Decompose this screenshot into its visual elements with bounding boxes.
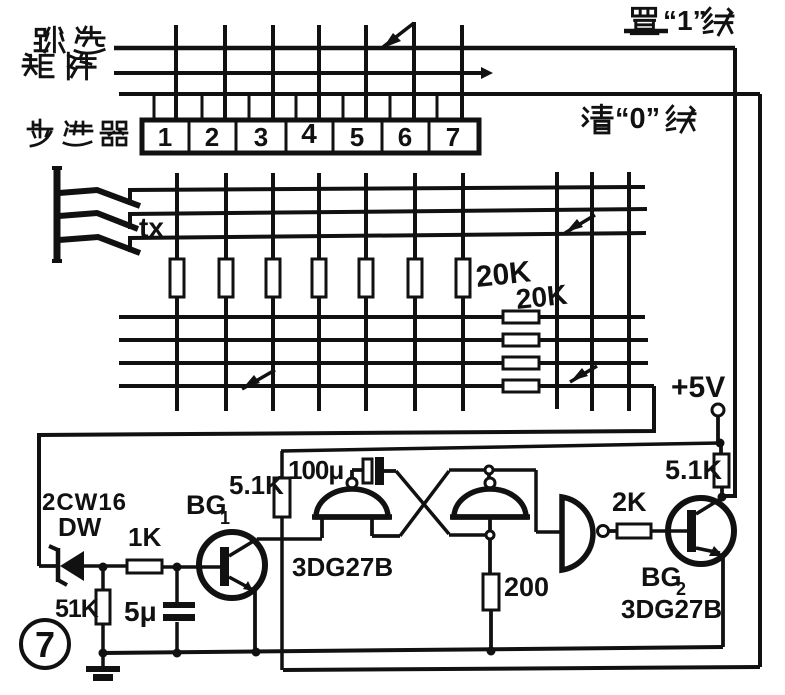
- label 步进器: [28, 120, 127, 146]
- svg-text:6: 6: [398, 122, 412, 152]
- nand gate U3: [562, 497, 617, 570]
- wire row C: [119, 361, 648, 365]
- svg-text:51K: 51K: [55, 595, 99, 623]
- wire row D to left frame: [39, 386, 654, 566]
- arrow row D right: [570, 366, 597, 382]
- wire to gate3: [493, 470, 561, 532]
- +5V terminal: [712, 404, 724, 416]
- svg-text:100μ: 100μ: [288, 455, 343, 485]
- svg-text:“0”: “0”: [615, 103, 660, 135]
- wire tx row2: [130, 209, 647, 229]
- svg-text:+5V: +5V: [671, 371, 725, 404]
- arrow row D left: [242, 370, 275, 389]
- resistor column R7: [456, 259, 470, 297]
- ground: [86, 653, 120, 681]
- wire cross X1: [396, 471, 485, 535]
- wire 200 to rail: [489, 610, 493, 651]
- mid matrix verticals with 20K resistors: [177, 173, 463, 411]
- label 置"1"线: [631, 5, 733, 36]
- svg-text:1: 1: [158, 122, 172, 152]
- underline under 置: [624, 29, 668, 34]
- svg-text:3: 3: [254, 122, 268, 152]
- capacitor 5u: [163, 567, 195, 653]
- figure number 7: [21, 620, 69, 668]
- svg-text:4: 4: [301, 118, 317, 149]
- arrowhead L2: [481, 67, 493, 79]
- junction 200 bottom: [487, 647, 496, 656]
- label BG1: [186, 490, 230, 528]
- wire +5V stub: [716, 416, 720, 442]
- right matrix verticals: [557, 172, 629, 411]
- wire BG1 collector horizontal: [257, 537, 322, 541]
- svg-text:5: 5: [350, 122, 364, 152]
- wire cross X2: [400, 470, 485, 536]
- resistor 51K: [96, 567, 110, 653]
- resistor column R1: [170, 259, 184, 297]
- resistor row B 20K: [503, 334, 539, 346]
- svg-text:1K: 1K: [128, 522, 161, 552]
- resistor column R3: [266, 259, 280, 297]
- junction node1: [99, 563, 108, 572]
- stepper box: [142, 120, 479, 153]
- svg-text:7: 7: [35, 624, 55, 665]
- wire row B: [119, 338, 648, 342]
- resistor row A 20K: [503, 311, 539, 323]
- wire clear-0 bottom return: [283, 667, 760, 670]
- top matrix vertical col6: [412, 22, 416, 120]
- zener DW: [39, 546, 127, 585]
- wire ground rail: [103, 647, 723, 653]
- junction BG1 emitter: [252, 648, 261, 657]
- svg-text:200: 200: [504, 572, 549, 602]
- svg-text:“1”: “1”: [663, 5, 707, 36]
- junction +5V: [716, 439, 725, 448]
- svg-text:3DG27B: 3DG27B: [621, 594, 722, 624]
- resistor row C 20K: [503, 357, 539, 369]
- resistor 5.1K BG1: [274, 478, 290, 517]
- wire L1 right vertical A: [722, 48, 735, 496]
- wire L2 with arrow: [114, 71, 483, 75]
- wire clear-0 line L3: [119, 92, 760, 96]
- junction gnd: [99, 649, 108, 658]
- wire BG1 collector vertical: [280, 451, 284, 670]
- resistor 1K: [127, 560, 162, 573]
- resistor column R2: [219, 259, 233, 297]
- bus bar: [54, 168, 61, 261]
- junction cap bottom: [173, 649, 182, 658]
- svg-text:5μ: 5μ: [124, 596, 157, 627]
- wire tx row3: [130, 233, 646, 252]
- svg-text:7: 7: [446, 122, 460, 152]
- brush arrow 3: [59, 237, 140, 253]
- resistor 2K: [617, 524, 651, 538]
- junction node2: [173, 563, 182, 572]
- resistor 200: [483, 574, 499, 610]
- label 清"0"线: [583, 103, 695, 135]
- wire +5V rail: [281, 443, 720, 451]
- stepper box dividers: [189, 120, 429, 153]
- wire 2K to BG2 base: [651, 529, 687, 533]
- transistor BG2: [668, 498, 734, 647]
- resistor column R4: [312, 259, 326, 297]
- nand gate U1: [312, 470, 400, 538]
- resistor 5.1K BG2: [714, 443, 729, 497]
- capacitor 100u: [363, 457, 396, 485]
- label 矩阵: [23, 53, 95, 79]
- junction ring top: [485, 466, 493, 474]
- svg-text:2: 2: [205, 122, 219, 152]
- arrow mid right: [565, 215, 595, 233]
- resistor column R5: [359, 259, 373, 297]
- svg-text:1: 1: [220, 508, 230, 528]
- junction BG2 collector: [718, 493, 727, 502]
- svg-text:DW: DW: [58, 512, 102, 542]
- resistor row D 20K: [503, 380, 539, 392]
- wire 1K to base: [162, 565, 221, 569]
- label 跳选: [35, 27, 104, 53]
- wire L3 right vertical B: [758, 94, 762, 667]
- wire tx row1: [130, 187, 645, 205]
- transistor BG1: [199, 532, 265, 652]
- brush arrow 2: [59, 213, 138, 229]
- wire row A: [119, 315, 645, 319]
- stepper digits: [158, 118, 460, 152]
- junction ring bottom: [486, 531, 494, 539]
- svg-text:5.1K: 5.1K: [229, 470, 284, 500]
- nand gate U2: [450, 474, 530, 574]
- svg-text:tx: tx: [139, 212, 164, 243]
- arrow on L1: [383, 23, 414, 48]
- top matrix verticals: [176, 25, 462, 120]
- label BG2: [641, 562, 686, 599]
- brush arrow 1: [59, 190, 140, 206]
- svg-text:5.1K: 5.1K: [665, 455, 723, 485]
- stepper ticks: [154, 96, 437, 120]
- svg-text:2K: 2K: [612, 487, 647, 517]
- wire set-1 line L1: [114, 46, 735, 51]
- svg-text:3DG27B: 3DG27B: [292, 552, 393, 582]
- resistor column R6: [408, 259, 422, 297]
